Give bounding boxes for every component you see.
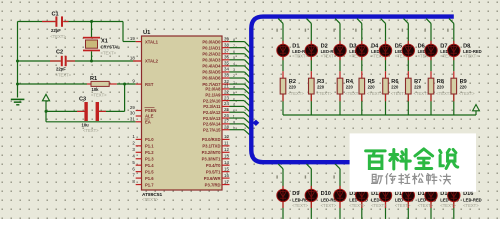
wire P2.7 to bus bbox=[230, 126, 250, 135]
resistor R3 bbox=[309, 78, 315, 94]
svg-text:<TEXT>: <TEXT> bbox=[459, 91, 475, 96]
svg-text:P3.3/INT1: P3.3/INT1 bbox=[202, 156, 222, 161]
svg-text:35: 35 bbox=[224, 61, 229, 66]
pin 8 P1.7 bbox=[132, 179, 154, 187]
wire resistor R2 to rail bbox=[282, 94, 284, 115]
svg-text:12: 12 bbox=[224, 147, 229, 152]
wire LED D16 down bbox=[453, 202, 455, 219]
svg-text:<TEXT>: <TEXT> bbox=[142, 197, 159, 202]
svg-text:P0.6/AD6: P0.6/AD6 bbox=[202, 76, 221, 81]
svg-text:P3.5/T1: P3.5/T1 bbox=[206, 169, 221, 174]
label LED D1 bbox=[292, 44, 311, 59]
svg-text:220: 220 bbox=[414, 85, 422, 90]
label LED D10 bbox=[321, 191, 340, 208]
svg-text:<TEXT>: <TEXT> bbox=[292, 203, 308, 208]
label LED D16 bbox=[463, 191, 482, 208]
svg-text:18: 18 bbox=[130, 56, 135, 61]
net label mark col 3 bottom bbox=[333, 175, 334, 178]
label LED D4 bbox=[371, 44, 390, 59]
wire P2.1 to bus bbox=[230, 91, 250, 100]
svg-text:P2.1/A9: P2.1/A9 bbox=[205, 92, 221, 97]
svg-text:P1.0: P1.0 bbox=[145, 137, 154, 142]
IC U1 AT89C51 bbox=[142, 30, 223, 202]
wire bus to LED D10 bbox=[307, 164, 312, 190]
wire bus to LED D1 bbox=[278, 19, 283, 45]
junction C3-RST bbox=[123, 83, 126, 86]
pin 17 P3.7/RD bbox=[205, 179, 230, 187]
watermark box bbox=[350, 133, 476, 191]
label resistor R7 bbox=[414, 79, 430, 96]
pin 3 P1.2 bbox=[132, 147, 154, 155]
svg-text:<TEXT>: <TEXT> bbox=[321, 203, 337, 208]
svg-text:<TEXT>: <TEXT> bbox=[101, 51, 117, 56]
svg-text:P2.6/A14: P2.6/A14 bbox=[203, 122, 221, 127]
resistor R9 bbox=[451, 78, 457, 94]
LED D8 bbox=[448, 44, 460, 56]
svg-text:P2.4/A12: P2.4/A12 bbox=[203, 110, 221, 115]
svg-text:P1.2: P1.2 bbox=[145, 150, 154, 155]
wire LED D9 down bbox=[282, 202, 284, 219]
LED D14 bbox=[402, 189, 414, 201]
svg-text:17: 17 bbox=[224, 179, 229, 184]
net label mark col 3 top bbox=[333, 29, 334, 32]
wire bus to LED D2 bbox=[307, 19, 312, 45]
pin 13 P3.3/INT1 bbox=[202, 153, 230, 161]
svg-text:<TEXT>: <TEXT> bbox=[56, 73, 72, 78]
pin 12 P3.2/INT0 bbox=[202, 147, 230, 155]
label resistor R2 bbox=[288, 79, 304, 96]
capacitor C2 bbox=[56, 50, 72, 78]
svg-text:P0.4/AD4: P0.4/AD4 bbox=[202, 64, 221, 69]
label resistor R8 bbox=[436, 79, 452, 96]
wire P0.2 to bus bbox=[230, 50, 250, 59]
svg-text:8: 8 bbox=[233, 38, 235, 42]
net label mark col 6 bottom bbox=[402, 175, 403, 178]
svg-text:11: 11 bbox=[224, 141, 229, 146]
svg-text:<TEXT>: <TEXT> bbox=[463, 203, 479, 208]
wire bus to LED D8 bbox=[449, 19, 454, 45]
ground bbox=[11, 99, 25, 106]
svg-text:25: 25 bbox=[224, 107, 229, 112]
wire LED D10 down bbox=[310, 202, 312, 219]
label LED D14 bbox=[418, 191, 437, 208]
LED D9 bbox=[277, 189, 289, 201]
svg-text:220: 220 bbox=[317, 85, 325, 90]
svg-text:4: 4 bbox=[233, 62, 235, 66]
svg-text:15: 15 bbox=[224, 166, 229, 171]
pin 10 P3.0/RXD bbox=[202, 134, 230, 142]
wire LED D13 down bbox=[385, 202, 387, 219]
wire P0.6 to bus bbox=[230, 74, 250, 83]
svg-text:<TEXT>: <TEXT> bbox=[440, 203, 456, 208]
wire bus to LED D3 bbox=[335, 19, 340, 45]
net label mark col 2 bottom bbox=[305, 175, 306, 178]
svg-text:220: 220 bbox=[289, 85, 297, 90]
svg-text:EA: EA bbox=[145, 120, 151, 125]
svg-text:CRYSTAL: CRYSTAL bbox=[101, 45, 121, 50]
net label mark col 5 bottom bbox=[379, 175, 380, 178]
wire bus to LED D5 bbox=[381, 19, 386, 45]
label LED D8 bbox=[463, 44, 482, 59]
label LED D12 bbox=[371, 191, 390, 208]
wire LED D14 down bbox=[407, 202, 409, 219]
svg-text:28: 28 bbox=[224, 124, 229, 129]
LED D6 bbox=[402, 44, 414, 56]
svg-text:P1.1: P1.1 bbox=[145, 144, 154, 149]
svg-text:7: 7 bbox=[233, 44, 235, 48]
svg-text:22: 22 bbox=[224, 89, 229, 94]
net label mark col 1 bottom bbox=[276, 175, 277, 178]
pin 27 P2.6/A14 bbox=[203, 119, 229, 127]
wire ground rail vertical bbox=[17, 22, 19, 98]
pin 1 P1.0 bbox=[132, 134, 154, 142]
svg-text:34: 34 bbox=[224, 67, 229, 72]
svg-text:P0.5/AD5: P0.5/AD5 bbox=[202, 70, 221, 75]
LED D16 bbox=[448, 189, 460, 201]
net label mark col 8 top bbox=[447, 29, 448, 32]
resistor R5 bbox=[359, 78, 365, 94]
pin 5 P1.4 bbox=[132, 160, 154, 168]
resistor R2 bbox=[280, 78, 286, 94]
wire LED D2 to resistor R3 bbox=[310, 57, 312, 78]
svg-text:P1.6: P1.6 bbox=[145, 176, 154, 181]
watermark title text bbox=[366, 151, 385, 169]
svg-text:220: 220 bbox=[437, 85, 445, 90]
svg-text:26: 26 bbox=[224, 113, 229, 118]
pin 16 P3.6/WR bbox=[204, 173, 230, 181]
junction C2-rail bbox=[16, 60, 19, 63]
net label mark col 4 bottom bbox=[355, 175, 356, 178]
svg-text:P0.1/AD1: P0.1/AD1 bbox=[202, 45, 221, 50]
capacitor C1 bbox=[50, 12, 66, 39]
svg-text:<TEXT>: <TEXT> bbox=[321, 54, 337, 59]
pin 31 EA bbox=[130, 116, 151, 124]
svg-text:14: 14 bbox=[224, 160, 229, 165]
pin 33 P0.6/AD6 bbox=[202, 73, 229, 81]
svg-text:39: 39 bbox=[224, 36, 229, 41]
label resistor R5 bbox=[367, 79, 383, 96]
pin 22 P2.1/A9 bbox=[205, 89, 229, 97]
svg-text:C2: C2 bbox=[56, 50, 63, 56]
wire VCC rail bbox=[283, 114, 476, 116]
net label mark col 1 top bbox=[276, 29, 277, 32]
svg-text:P2.2/A10: P2.2/A10 bbox=[203, 98, 221, 103]
svg-text:<TEXT>: <TEXT> bbox=[463, 54, 479, 59]
svg-text:22pF: 22pF bbox=[56, 66, 66, 71]
junction crystal-XTAL2 bbox=[90, 60, 93, 63]
pin 35 P0.4/AD4 bbox=[202, 61, 229, 69]
svg-text:<TEXT>: <TEXT> bbox=[367, 91, 383, 96]
svg-text:h: h bbox=[233, 126, 235, 130]
svg-text:C1: C1 bbox=[52, 12, 59, 18]
svg-text:LED-RED: LED-RED bbox=[463, 197, 482, 202]
label resistor R9 bbox=[459, 79, 475, 96]
label LED D7 bbox=[440, 44, 459, 59]
LED D5 bbox=[379, 44, 391, 56]
svg-text:C3: C3 bbox=[79, 97, 86, 103]
svg-text:10u: 10u bbox=[82, 122, 90, 127]
svg-text:P0.3/AD3: P0.3/AD3 bbox=[202, 58, 221, 63]
label resistor R4 bbox=[345, 79, 361, 96]
wire crystal bottom lead bbox=[91, 51, 93, 61]
svg-text:P2.3/A11: P2.3/A11 bbox=[203, 104, 221, 109]
pin 26 P2.5/A13 bbox=[203, 113, 229, 121]
pin 23 P2.2/A10 bbox=[203, 95, 229, 103]
svg-text:36: 36 bbox=[224, 55, 229, 60]
wire LED D12 down bbox=[361, 202, 363, 219]
label LED D5 bbox=[395, 44, 414, 59]
svg-text:<TEXT>: <TEXT> bbox=[436, 91, 452, 96]
svg-text:D10: D10 bbox=[321, 191, 331, 197]
LED D1 bbox=[277, 44, 289, 56]
wire C3 left branch bbox=[46, 110, 84, 112]
svg-text:<TEXT>: <TEXT> bbox=[50, 34, 66, 39]
label LED D13 bbox=[395, 191, 414, 208]
wire XTAL2 net bbox=[18, 60, 142, 62]
label LED D9 bbox=[292, 191, 311, 208]
pin 21 P2.0/A8 bbox=[205, 84, 229, 92]
svg-text:37: 37 bbox=[224, 48, 229, 53]
svg-text:22pF: 22pF bbox=[51, 28, 61, 33]
LED D4 bbox=[356, 44, 368, 56]
wire LED D8 to resistor R9 bbox=[453, 57, 455, 78]
svg-text:38: 38 bbox=[224, 42, 229, 47]
svg-text:P2.7/A15: P2.7/A15 bbox=[203, 127, 221, 132]
LED D12 bbox=[356, 189, 368, 201]
resistor R6 bbox=[383, 78, 389, 94]
svg-text:XTAL1: XTAL1 bbox=[145, 39, 159, 44]
net label mark col 7 bottom bbox=[424, 175, 425, 178]
svg-text:d: d bbox=[233, 103, 235, 107]
wire XTAL1 net bbox=[18, 22, 136, 42]
LED D11 bbox=[334, 189, 346, 201]
svg-text:<TEXT>: <TEXT> bbox=[391, 91, 407, 96]
power symbol VCC right bbox=[473, 105, 480, 116]
wire bus to LED D4 bbox=[357, 19, 362, 45]
pin 38 P0.1/AD1 bbox=[202, 42, 229, 50]
LED D3 bbox=[334, 44, 346, 56]
svg-text:220: 220 bbox=[391, 85, 399, 90]
net label mark col 8 bottom bbox=[447, 175, 448, 178]
junction C3-power bbox=[45, 110, 48, 113]
svg-text:<TEXT>: <TEXT> bbox=[371, 203, 387, 208]
svg-text:10: 10 bbox=[224, 134, 229, 139]
wire resistor R4 to rail bbox=[339, 94, 341, 115]
wire resistor R5 to rail bbox=[361, 94, 363, 115]
pin 30 ALE bbox=[130, 111, 154, 119]
wire C3 right branch bbox=[99, 84, 125, 111]
resistor R4 bbox=[337, 78, 343, 94]
wire P2.4 to bus bbox=[230, 108, 250, 117]
svg-text:b: b bbox=[233, 91, 235, 95]
svg-text:P3.7/RD: P3.7/RD bbox=[205, 182, 221, 187]
net label mark col 7 top bbox=[424, 29, 425, 32]
svg-text:<TEXT>: <TEXT> bbox=[288, 91, 304, 96]
svg-text:U1: U1 bbox=[143, 30, 151, 36]
wire P0.0 to bus bbox=[230, 38, 250, 47]
svg-text:c: c bbox=[233, 97, 235, 101]
wire P2.0 to bus bbox=[230, 85, 250, 94]
wire LED D7 to resistor R8 bbox=[430, 57, 432, 78]
svg-text:<TEXT>: <TEXT> bbox=[317, 91, 333, 96]
wire bus to LED D6 bbox=[404, 19, 409, 45]
pin 18 XTAL2 bbox=[130, 56, 159, 64]
pin 29 PSEN bbox=[130, 105, 156, 113]
svg-text:3: 3 bbox=[233, 68, 235, 72]
svg-text:13: 13 bbox=[224, 153, 229, 158]
label resistor R6 bbox=[391, 79, 407, 96]
svg-text:24: 24 bbox=[224, 101, 229, 106]
LED D7 bbox=[425, 44, 437, 56]
wire P0.7 to bus bbox=[230, 80, 250, 89]
svg-text:P1.3: P1.3 bbox=[145, 156, 154, 161]
pin 28 P2.7/A15 bbox=[203, 124, 229, 132]
svg-text:6: 6 bbox=[233, 50, 235, 54]
wire P2.3 to bus bbox=[230, 103, 250, 112]
pin 4 P1.3 bbox=[132, 153, 154, 161]
svg-text:21: 21 bbox=[224, 84, 229, 89]
wire P2.2 to bus bbox=[230, 97, 250, 106]
svg-text:R1: R1 bbox=[90, 76, 97, 82]
net label mark col 5 top bbox=[379, 29, 380, 32]
pin 24 P2.3/A11 bbox=[203, 101, 229, 109]
crystal X1 bbox=[83, 37, 120, 56]
label LED D6 bbox=[418, 44, 437, 59]
svg-text:220: 220 bbox=[368, 85, 376, 90]
wire P2.5 to bus bbox=[230, 114, 250, 123]
junction RST-rail bbox=[16, 83, 19, 86]
wire LED D15 down bbox=[430, 202, 432, 219]
wire bus to LED D16 bbox=[449, 164, 454, 190]
svg-text:P3.4/T0: P3.4/T0 bbox=[206, 163, 221, 168]
pin 11 P3.1/TXD bbox=[202, 141, 229, 149]
svg-text:PSEN: PSEN bbox=[145, 108, 156, 113]
pin 9 RST bbox=[132, 79, 153, 87]
label LED D15 bbox=[440, 191, 459, 208]
wire bus to LED D15 bbox=[426, 164, 431, 190]
label LED D11 bbox=[349, 191, 368, 208]
pin 36 P0.3/AD3 bbox=[202, 55, 229, 63]
svg-text:ALE: ALE bbox=[145, 114, 154, 119]
wire P0.3 to bus bbox=[230, 56, 250, 65]
wire P0.4 to bus bbox=[230, 62, 250, 71]
svg-text:29: 29 bbox=[130, 105, 135, 110]
svg-text:P0.0/AD0: P0.0/AD0 bbox=[202, 39, 221, 44]
junction crystal-XTAL1 bbox=[90, 20, 93, 23]
wire P0.5 to bus bbox=[230, 68, 250, 77]
wire LED D4 to resistor R5 bbox=[361, 57, 363, 78]
resistor R8 bbox=[428, 78, 434, 94]
wire LED D11 down bbox=[339, 202, 341, 219]
wire resistor R6 to rail bbox=[385, 94, 387, 115]
wire bus to LED D7 bbox=[426, 19, 431, 45]
wire LED D5 to resistor R6 bbox=[385, 57, 387, 78]
svg-text:<TEXT>: <TEXT> bbox=[349, 203, 365, 208]
svg-text:e: e bbox=[233, 108, 235, 112]
pin 37 P0.2/AD2 bbox=[202, 48, 229, 56]
svg-text:<TEXT>: <TEXT> bbox=[395, 203, 411, 208]
pin 14 P3.4/T0 bbox=[206, 160, 230, 168]
svg-text:P2.0/A8: P2.0/A8 bbox=[205, 87, 221, 92]
wire resistor R8 to rail bbox=[430, 94, 432, 115]
svg-text:P2.5/A13: P2.5/A13 bbox=[203, 116, 221, 121]
wire RST net bbox=[18, 83, 136, 85]
svg-text:P1.4: P1.4 bbox=[145, 163, 154, 168]
bus entry diamond bbox=[253, 120, 260, 126]
LED D10 bbox=[305, 189, 317, 201]
svg-text:P3.0/RXD: P3.0/RXD bbox=[202, 137, 221, 142]
net label mark col 4 top bbox=[355, 29, 356, 32]
wire LED D1 to resistor R2 bbox=[282, 57, 284, 78]
capacitor C3 bbox=[79, 97, 99, 133]
svg-text:<TEXT>: <TEXT> bbox=[418, 203, 434, 208]
wire P0.1 to bus bbox=[230, 44, 250, 53]
wire resistor R7 to rail bbox=[407, 94, 409, 115]
LED D15 bbox=[425, 189, 437, 201]
wire LED D6 to resistor R7 bbox=[407, 57, 409, 78]
wire LED D3 to resistor R4 bbox=[339, 57, 341, 78]
pin 2 P1.1 bbox=[132, 140, 154, 148]
svg-text:220: 220 bbox=[460, 85, 468, 90]
svg-text:19: 19 bbox=[130, 36, 135, 41]
svg-text:<TEXT>: <TEXT> bbox=[83, 128, 99, 133]
pin 32 P0.7/AD7 bbox=[202, 79, 229, 87]
pin 15 P3.5/T1 bbox=[206, 166, 230, 174]
svg-text:220: 220 bbox=[346, 85, 354, 90]
svg-text:10k: 10k bbox=[92, 87, 100, 92]
wire resistor R3 to rail bbox=[310, 94, 312, 115]
power symbol VCC left bbox=[42, 94, 49, 101]
svg-text:P3.1/TXD: P3.1/TXD bbox=[202, 144, 220, 149]
pin 6 P1.5 bbox=[132, 166, 154, 174]
svg-text:30: 30 bbox=[130, 111, 135, 116]
pin 39 P0.0/AD0 bbox=[202, 36, 229, 44]
svg-text:16: 16 bbox=[224, 173, 229, 178]
svg-text:P3.6/WR: P3.6/WR bbox=[204, 176, 221, 181]
net label mark col 2 top bbox=[305, 29, 306, 32]
wire resistor R9 to rail bbox=[453, 94, 455, 115]
svg-text:D9: D9 bbox=[292, 191, 299, 197]
svg-text:27: 27 bbox=[224, 119, 229, 124]
wire bus to LED D9 bbox=[278, 164, 283, 190]
wire P2.6 to bus bbox=[230, 120, 250, 129]
net label mark col 6 top bbox=[402, 29, 403, 32]
resistor R7 bbox=[406, 78, 412, 94]
pin 7 P1.6 bbox=[132, 173, 154, 181]
wire bus to LED D14 bbox=[404, 164, 409, 190]
LED D13 bbox=[379, 189, 391, 201]
svg-text:g: g bbox=[233, 120, 235, 124]
svg-text:1: 1 bbox=[233, 80, 235, 84]
svg-text:33: 33 bbox=[224, 73, 229, 78]
pin 19 XTAL1 bbox=[130, 36, 159, 44]
pin 25 P2.4/A12 bbox=[203, 107, 229, 115]
svg-text:31: 31 bbox=[130, 116, 135, 121]
LED D2 bbox=[305, 44, 317, 56]
label resistor R3 bbox=[317, 79, 333, 96]
wire bus to LED D11 bbox=[335, 164, 340, 190]
svg-text:<TEXT>: <TEXT> bbox=[414, 91, 430, 96]
bus main blue bbox=[251, 17, 453, 163]
svg-text:<TEXT>: <TEXT> bbox=[91, 93, 107, 98]
label LED D2 bbox=[321, 44, 340, 59]
svg-text:XTAL2: XTAL2 bbox=[145, 59, 159, 64]
wire bus to LED D12 bbox=[357, 164, 362, 190]
svg-text:P1.7: P1.7 bbox=[145, 182, 154, 187]
resistor R1 bbox=[90, 76, 109, 97]
svg-text:P3.2/INT0: P3.2/INT0 bbox=[202, 150, 222, 155]
svg-text:D16: D16 bbox=[463, 191, 473, 197]
